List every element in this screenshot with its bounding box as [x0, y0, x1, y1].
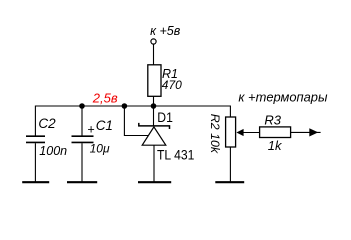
svg-text:470: 470 — [162, 78, 182, 92]
wire terminal to R1 — [153, 44, 155, 65]
wire ref node to D1 — [124, 106, 149, 136]
output arrow — [309, 128, 318, 136]
node ref — [122, 103, 128, 109]
resistor R1 — [148, 65, 161, 97]
wire bus to D1 cathode — [153, 106, 155, 126]
svg-text:10μ: 10μ — [90, 141, 110, 155]
svg-text:D1: D1 — [157, 109, 173, 125]
ground D1 — [138, 181, 171, 183]
svg-text:1k: 1k — [268, 138, 283, 153]
wire R3 to output — [291, 131, 321, 133]
wire bus to C1 — [81, 106, 83, 136]
wire D1 anode to ground — [153, 146, 155, 183]
resistor R2 — [226, 117, 236, 147]
wire R2 to ground — [229, 147, 231, 182]
svg-text:к +термопары: к +термопары — [238, 89, 328, 104]
wire C2 to ground — [34, 143, 36, 182]
wiper arrow R2 — [236, 129, 243, 136]
svg-text:2,5в: 2,5в — [92, 91, 118, 106]
wire C1 to ground — [81, 143, 83, 182]
terminal +5V — [151, 39, 156, 44]
svg-text:+: + — [87, 122, 94, 136]
node R1/D1 — [151, 103, 157, 109]
capacitor C2 — [26, 135, 45, 137]
diode D1 triangle TL431 — [142, 127, 166, 145]
wire bus 2.5V — [35, 106, 230, 136]
ground C2 — [22, 181, 49, 183]
wire R1 to bus — [153, 96, 155, 106]
resistor R3 — [260, 127, 291, 138]
svg-text:R3: R3 — [264, 112, 281, 127]
capacitor C1 — [72, 135, 94, 137]
svg-text:R2 10k: R2 10k — [208, 114, 222, 154]
ground R2 — [215, 181, 244, 183]
svg-text:100n: 100n — [39, 144, 67, 158]
svg-text:C1: C1 — [96, 118, 113, 133]
svg-text:к +5в: к +5в — [150, 24, 181, 38]
wire wiper to R3 — [243, 132, 260, 134]
ground C1 — [67, 181, 97, 183]
diode D1 cathode bar — [139, 123, 170, 129]
node C1 — [79, 103, 85, 109]
svg-text:C2: C2 — [38, 116, 56, 131]
svg-text:TL 431: TL 431 — [157, 147, 195, 163]
